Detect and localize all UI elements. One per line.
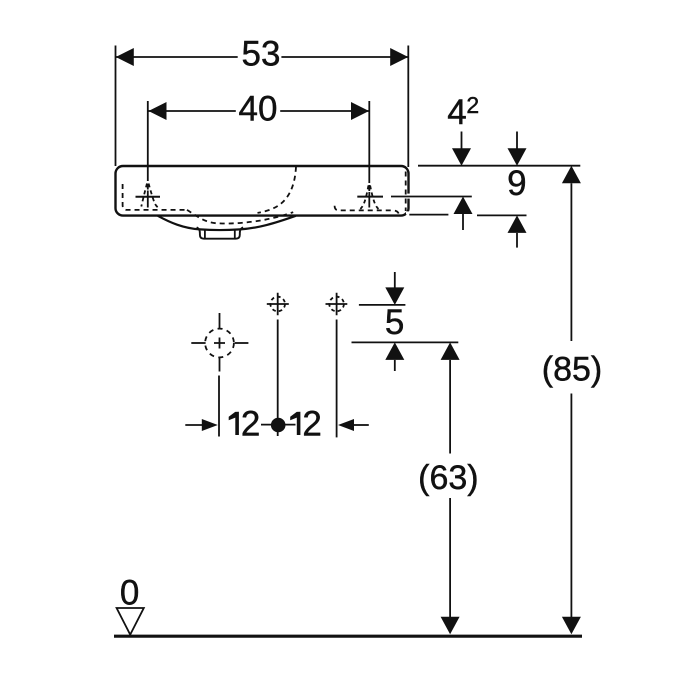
tap level reference line: [391, 196, 472, 198]
right tap silhouette (dashed): [360, 186, 378, 209]
svg-text:(63): (63): [418, 459, 478, 497]
break in right edge at crossing line: [406, 194, 411, 199]
hidden inner wall right (dashed): [405, 172, 407, 212]
extension line left tap: [147, 101, 149, 181]
extension line right tap: [368, 101, 370, 183]
midpoint dot: [261, 424, 296, 426]
dimension 40 line: [149, 110, 370, 112]
fixing hole right circle (dashed): [329, 297, 344, 312]
dimension (85) line upper: [562, 166, 581, 184]
hidden basin rim arc (dashed): [258, 167, 297, 213]
dimension 53 left arrowhead: [116, 48, 134, 66]
dimension (85) line lower: [570, 394, 572, 619]
fixing right drop line: [336, 320, 338, 438]
dimension 5 bottom line: [352, 341, 459, 343]
bottom reference line (left piece): [409, 214, 448, 216]
drain boss inner right line: [234, 230, 236, 238]
dim 9 up arrow: [508, 215, 527, 233]
svg-text:40: 40: [239, 90, 278, 129]
svg-text:9: 9: [507, 164, 526, 203]
zero datum triangle: [117, 608, 144, 635]
dimension 40 right arrowhead: [351, 102, 369, 120]
dim 5 up arrow: [385, 342, 404, 360]
hidden inner wall left (dashed): [123, 184, 187, 210]
drain boss outline: [197, 227, 244, 238]
floor line: [114, 635, 582, 638]
svg-text:2: 2: [241, 405, 260, 444]
dimension 53 line: [116, 56, 408, 58]
dimension (63) line lower: [449, 498, 451, 618]
left tap hole cross: [136, 196, 161, 198]
dimension 5 top line: [359, 304, 406, 306]
svg-text:4: 4: [447, 93, 466, 132]
water supply center cross: [214, 338, 225, 349]
fixing left drop line: [277, 320, 279, 437]
top reference line right: [418, 165, 580, 167]
hidden deck depression right (dashed): [335, 206, 399, 214]
extension line left of 53: [115, 46, 117, 167]
svg-text:0: 0: [120, 574, 139, 613]
dimension (63) line upper: [441, 342, 460, 360]
dim 4 down arrow: [461, 132, 463, 151]
water supply symbol circle (dashed): [205, 329, 234, 358]
dimension 40 left arrowhead: [149, 102, 167, 120]
water supply tick left: [191, 342, 205, 344]
extension line right of 53: [407, 46, 409, 168]
dim 4 up arrow: [454, 197, 473, 215]
fixing hole left crosshair: [267, 293, 289, 316]
right tap center line (dashed continuation): [368, 185, 370, 208]
water supply tick down: [219, 357, 221, 372]
dimension 53 right arrowhead: [390, 48, 408, 66]
drain boss inner left line: [204, 230, 206, 238]
dimension 12 right label: [290, 412, 300, 435]
basin bowl solid curve: [158, 216, 296, 230]
fixing hole right crosshair: [326, 293, 348, 316]
svg-text:2: 2: [302, 405, 321, 444]
right tap hole cross: [357, 196, 383, 198]
svg-text:2: 2: [466, 92, 479, 118]
dimension 12-12 right arrow: [338, 419, 354, 431]
dim 5 down arrow: [394, 272, 396, 289]
dimension 12 left label: [229, 412, 239, 435]
water supply tick up: [219, 313, 221, 328]
water supply tick right: [235, 342, 249, 344]
hidden bowl arc (dashed): [187, 210, 293, 224]
break in right edge near bottom corner: [406, 211, 411, 214]
dimension 12-12 left arrow: [185, 424, 202, 426]
left tap silhouette (dashed): [141, 184, 160, 209]
supply drop line: [218, 376, 220, 437]
bottom reference line (right piece): [477, 214, 527, 216]
svg-text:53: 53: [242, 35, 281, 74]
svg-text:5: 5: [385, 303, 404, 342]
svg-text:(85): (85): [542, 351, 602, 389]
left tap center line (dashed continuation): [147, 184, 149, 208]
fixing hole left circle (dashed): [270, 297, 285, 312]
dim 9 down arrow: [516, 132, 518, 151]
washbasin outer body: [116, 166, 409, 216]
